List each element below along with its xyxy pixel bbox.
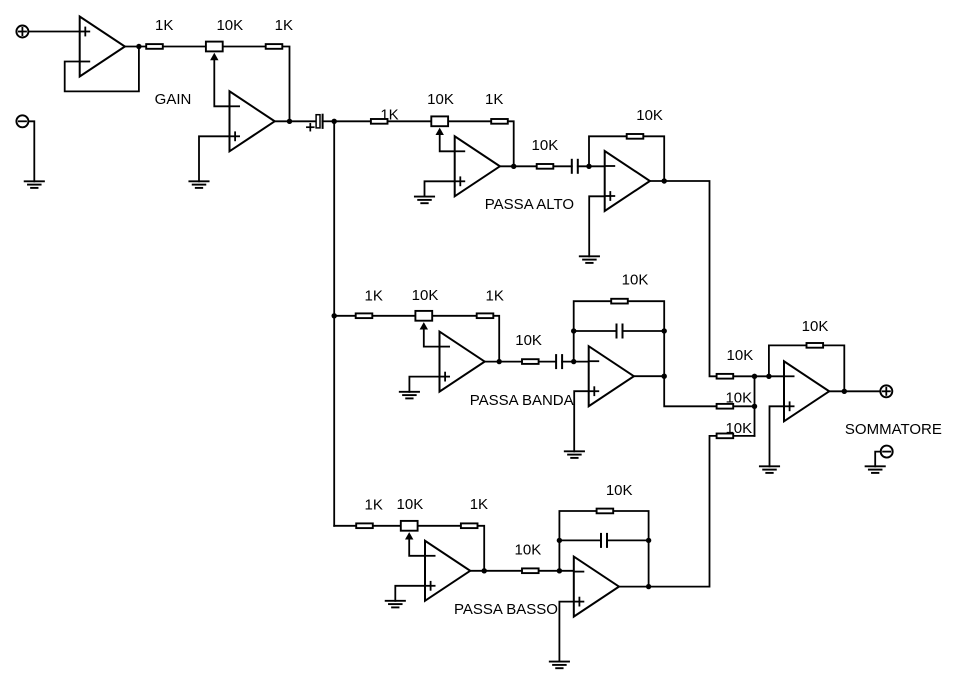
svg-text:1K: 1K bbox=[155, 17, 173, 34]
potentiometer P2 10K bbox=[431, 116, 448, 126]
resistor R9 10K bbox=[522, 359, 539, 364]
svg-text:SOMMATORE: SOMMATORE bbox=[845, 421, 942, 438]
node junction R4/U3 output bbox=[511, 164, 516, 169]
wire P2 to R4 bbox=[449, 120, 490, 122]
svg-text:GAIN: GAIN bbox=[155, 91, 192, 108]
wire R13 to U8 -in bbox=[540, 570, 574, 572]
svg-text:10K: 10K bbox=[725, 420, 752, 437]
wire U8 +in to ground bbox=[559, 602, 573, 662]
wire R16 to summing vertical bbox=[734, 405, 754, 407]
wire P3 to R8 bbox=[433, 315, 475, 317]
wire R9 to C3 bbox=[540, 361, 556, 363]
resistor R7 1K bbox=[356, 313, 373, 318]
svg-text:1K: 1K bbox=[365, 287, 383, 304]
op-amp U5 band-pass first bbox=[440, 332, 485, 392]
resistor R6 10K feedback bbox=[627, 134, 644, 139]
potentiometer P4 10K bbox=[401, 521, 418, 531]
resistor R11 1K bbox=[356, 523, 373, 528]
wire R8 down to U5 output bbox=[495, 316, 500, 362]
resistor R10 10K feedback bbox=[611, 299, 628, 304]
potentiometer P3 10K bbox=[415, 311, 432, 321]
op-amp U3 high-pass first bbox=[455, 136, 500, 196]
wire bus to R3 bbox=[334, 120, 370, 122]
svg-text:10K: 10K bbox=[532, 137, 559, 154]
wire R4 down to U3 output bbox=[509, 121, 514, 166]
wire U8 output to summing R17 bbox=[620, 436, 716, 587]
ground at U5 +in bbox=[400, 392, 419, 399]
P1 wiper arrow to U2 -in bbox=[210, 53, 218, 60]
resistor R12 1K bbox=[461, 523, 478, 528]
node junction R8/U5 output bbox=[497, 359, 502, 364]
ground at output minus bbox=[866, 466, 885, 473]
resistor R8 1K bbox=[477, 313, 494, 318]
svg-text:10K: 10K bbox=[412, 287, 439, 304]
wire C1 to bus node bbox=[323, 120, 335, 122]
resistor R16 10K summing band bbox=[717, 404, 734, 409]
wire R17 to summing vertical bbox=[734, 435, 754, 437]
node U6 -in junction bbox=[571, 359, 576, 364]
op-amp U7 low-pass first bbox=[425, 541, 470, 601]
node U1 output junction bbox=[136, 44, 141, 49]
P3 wiper arrow to U5 -in bbox=[420, 322, 428, 329]
ground at U3 +in bbox=[415, 197, 434, 204]
wire U8 feedback cap branch right bbox=[607, 539, 649, 541]
wire U6 feedback cap branch left bbox=[574, 330, 617, 332]
P4 wiper arrow to U7 -in bbox=[405, 532, 413, 539]
svg-text:10K: 10K bbox=[725, 389, 752, 406]
wire C3 to U6 -in bbox=[562, 361, 589, 363]
wire R10 to U6 output bbox=[629, 301, 664, 376]
wire U2 +in to ground bbox=[199, 136, 230, 181]
wire U9 output to output terminal bbox=[830, 390, 881, 392]
terminal output minus bbox=[881, 446, 893, 458]
wire U9 +in to ground bbox=[770, 406, 785, 466]
wire R7 to P3 bbox=[374, 315, 415, 317]
op-amp U1 input buffer bbox=[80, 17, 125, 77]
potentiometer P1 10K bbox=[206, 42, 223, 52]
wire R11 to P4 bbox=[374, 525, 400, 527]
svg-text:PASSA ALTO: PASSA ALTO bbox=[485, 196, 574, 213]
node U4 output junction bbox=[662, 178, 667, 183]
wire U8 feedback cap branch left bbox=[559, 539, 601, 541]
wire U2 output to C1 bbox=[275, 120, 316, 122]
terminal output plus bbox=[880, 385, 892, 397]
resistor R5 10K bbox=[537, 164, 554, 169]
node U6 output junction bbox=[662, 374, 667, 379]
svg-text:10K: 10K bbox=[515, 542, 542, 559]
wire U3 +in to ground bbox=[425, 181, 455, 196]
wire U8 feedback resistor branch bbox=[559, 511, 595, 571]
capacitor C2 series bbox=[572, 160, 578, 173]
node U8 feedback cap left junction bbox=[557, 538, 562, 543]
wire R14 to U8 output bbox=[614, 511, 648, 587]
op-amp U8 low-pass second bbox=[574, 557, 619, 617]
wire U7 +in to ground bbox=[395, 586, 425, 601]
wire U4 +in to ground bbox=[589, 196, 605, 256]
node summing node top bbox=[752, 374, 757, 379]
svg-text:1K: 1K bbox=[470, 496, 488, 513]
wire P1 to R2 bbox=[224, 46, 265, 48]
node U8 output junction bbox=[646, 584, 651, 589]
wire U5 +in to ground bbox=[409, 377, 439, 392]
ground at U7 +in bbox=[386, 601, 405, 608]
wire U7 output to R13 bbox=[471, 570, 521, 572]
wire U4 feedback loop bbox=[589, 136, 626, 166]
wire P4 to R12 bbox=[419, 525, 460, 527]
resistor R4 1K bbox=[491, 119, 508, 124]
wire U1 feedback loop bbox=[65, 47, 139, 92]
svg-text:10K: 10K bbox=[427, 91, 454, 108]
wire R15 to summing node bbox=[734, 375, 754, 377]
node bus top node bbox=[332, 119, 337, 124]
ground at input minus bbox=[25, 181, 44, 188]
wire R12 down to U7 output bbox=[479, 526, 485, 571]
wire U3 output to R5 bbox=[501, 165, 536, 167]
wire C2 to U4 -in bbox=[578, 165, 605, 167]
op-amp U4 high-pass second bbox=[605, 151, 650, 211]
ground at U9 +in bbox=[760, 466, 779, 473]
resistor R1 1K bbox=[146, 44, 163, 49]
wire summing node to U9 -in bbox=[755, 375, 785, 377]
node bus middle node bbox=[332, 313, 337, 318]
node U8 -in junction bbox=[557, 568, 562, 573]
wire input to U1 +in bbox=[28, 31, 79, 33]
wire U6 output to summing R16 bbox=[635, 376, 716, 406]
svg-text:10K: 10K bbox=[606, 482, 633, 499]
svg-text:1K: 1K bbox=[275, 17, 293, 34]
wire U5 output to R9 bbox=[485, 361, 521, 363]
svg-text:10K: 10K bbox=[802, 318, 829, 335]
svg-text:10K: 10K bbox=[216, 17, 243, 34]
svg-text:1K: 1K bbox=[486, 287, 504, 304]
svg-text:PASSA BASSO: PASSA BASSO bbox=[454, 601, 558, 618]
wire summing vertical bbox=[754, 376, 756, 436]
wire R5 to C2 bbox=[555, 165, 572, 167]
wire R3 to P2 bbox=[389, 120, 431, 122]
svg-text:10K: 10K bbox=[636, 107, 663, 124]
wire bus to R11 bbox=[334, 525, 355, 527]
svg-text:10K: 10K bbox=[622, 272, 649, 289]
op-amp U2 gain bbox=[230, 91, 275, 151]
resistor R13 10K bbox=[522, 568, 539, 573]
wire U6 feedback resistor branch bbox=[574, 301, 610, 361]
resistor R18 10K feedback bbox=[807, 343, 824, 348]
op-amp U9 summing bbox=[784, 361, 829, 421]
wire output minus to ground bbox=[875, 452, 881, 467]
ground at U4 +in bbox=[580, 256, 599, 263]
resistor R3 1K bbox=[371, 119, 388, 124]
node feedback cap left junction bbox=[571, 328, 576, 333]
wire U6 feedback cap branch right bbox=[623, 330, 665, 332]
resistor R15 10K summing high bbox=[717, 374, 734, 379]
wire main bus vertical bbox=[333, 121, 335, 526]
capacitor C4 feedback bbox=[617, 325, 623, 338]
node U9 output junction bbox=[842, 389, 847, 394]
wire U6 +in to ground bbox=[574, 391, 589, 451]
svg-text:PASSA BANDA: PASSA BANDA bbox=[470, 392, 574, 409]
ground at U6 +in bbox=[565, 451, 584, 458]
op-amp U6 band-pass second bbox=[589, 346, 634, 406]
node summing node middle bbox=[752, 404, 757, 409]
P2 wiper arrow to U3 -in bbox=[436, 128, 444, 135]
ground at U2 +in bbox=[189, 181, 208, 188]
wire input minus to ground bbox=[28, 121, 34, 181]
svg-text:1K: 1K bbox=[365, 497, 383, 514]
node feedback cap right junction bbox=[662, 328, 667, 333]
node U8 feedback cap right junction bbox=[646, 538, 651, 543]
terminal input minus bbox=[16, 115, 28, 127]
svg-text:1K: 1K bbox=[380, 107, 398, 124]
resistor R14 10K feedback bbox=[597, 509, 614, 514]
wire U1 output to R1 bbox=[126, 46, 146, 48]
node U4 -in junction bbox=[586, 164, 591, 169]
svg-text:10K: 10K bbox=[515, 332, 542, 349]
wire U4 output to summing R15 bbox=[650, 181, 715, 376]
resistor R17 10K summing low bbox=[717, 434, 734, 439]
node junction R2/U2 output bbox=[287, 119, 292, 124]
node junction R12/U7 output bbox=[482, 568, 487, 573]
capacitor C1 polarized bbox=[307, 115, 323, 131]
terminal input plus bbox=[16, 26, 28, 38]
svg-text:10K: 10K bbox=[397, 496, 424, 513]
wire R2 down to U2 output bbox=[284, 47, 290, 122]
wire bus to R7 bbox=[334, 315, 354, 317]
ground at U8 +in bbox=[550, 662, 569, 669]
wire R6 to U4 output bbox=[645, 136, 665, 181]
resistor R2 1K bbox=[266, 44, 283, 49]
node U9 -in junction bbox=[766, 374, 771, 379]
wire R18 to U9 output bbox=[824, 345, 844, 391]
svg-text:10K: 10K bbox=[727, 347, 754, 364]
svg-text:1K: 1K bbox=[485, 91, 503, 108]
capacitor C5 feedback bbox=[601, 534, 607, 547]
wire U9 feedback loop bbox=[769, 345, 805, 376]
wire R1 to P1 bbox=[164, 46, 205, 48]
capacitor C3 series bbox=[556, 355, 562, 368]
